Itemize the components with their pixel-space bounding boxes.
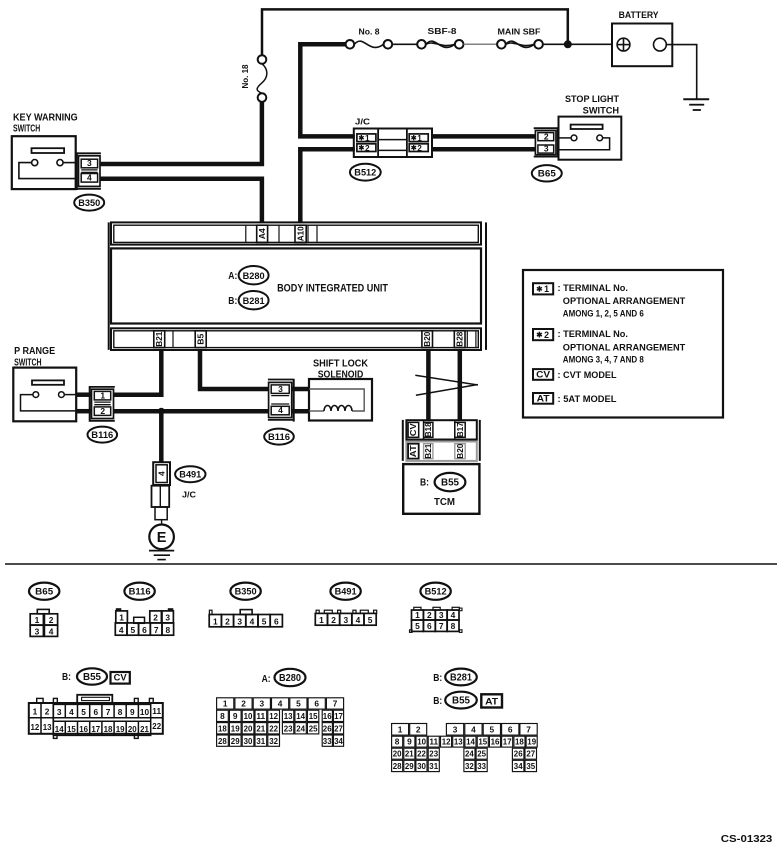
- svg-text:1: 1: [417, 133, 422, 143]
- svg-text:30: 30: [244, 736, 253, 746]
- key warning switch connector pins 3,4: [76, 152, 78, 190]
- svg-text:5: 5: [296, 699, 301, 709]
- key warning switch body: [12, 136, 76, 189]
- svg-text:B18: B18: [423, 422, 433, 437]
- stop light switch connector B65 pins 2,3: [557, 127, 559, 157]
- svg-text:34: 34: [334, 736, 343, 746]
- svg-text:B20: B20: [422, 331, 432, 346]
- svg-text:14: 14: [55, 724, 64, 734]
- svg-text:2: 2: [100, 406, 105, 416]
- svg-text:5: 5: [262, 617, 267, 627]
- svg-text:13: 13: [284, 711, 293, 721]
- svg-text:21: 21: [140, 724, 149, 734]
- svg-text:B:: B:: [228, 296, 237, 307]
- svg-text:1: 1: [119, 613, 124, 623]
- svg-text:3: 3: [237, 617, 242, 627]
- svg-text:13: 13: [454, 737, 463, 747]
- svg-text:1: 1: [33, 707, 38, 717]
- BIU connector strip A (top): [111, 222, 481, 244]
- svg-text:32: 32: [465, 761, 474, 771]
- fuse No. 8: [346, 40, 355, 49]
- svg-text:21: 21: [256, 723, 265, 733]
- svg-text:B21: B21: [423, 443, 433, 458]
- svg-text:19: 19: [231, 723, 240, 733]
- connector label B65: [532, 165, 562, 181]
- svg-text:29: 29: [405, 761, 414, 771]
- svg-text:1: 1: [398, 725, 403, 735]
- svg-text:18: 18: [104, 724, 113, 734]
- svg-text:5: 5: [368, 615, 373, 625]
- svg-text:22: 22: [269, 723, 278, 733]
- connector label B491: [175, 466, 205, 482]
- svg-text:4: 4: [278, 699, 283, 709]
- connector label B116: [88, 427, 118, 443]
- svg-text:30: 30: [417, 761, 426, 771]
- svg-text:BATTERY: BATTERY: [619, 10, 659, 20]
- svg-text:1: 1: [544, 284, 549, 294]
- svg-text:4: 4: [278, 405, 283, 415]
- svg-text:2: 2: [49, 615, 54, 625]
- svg-text:4: 4: [69, 707, 74, 717]
- svg-text:MAIN SBF: MAIN SBF: [498, 27, 541, 37]
- svg-text:A10: A10: [295, 226, 305, 241]
- crossing annotation (option crossover): [415, 375, 478, 385]
- svg-text:10: 10: [244, 711, 253, 721]
- P range switch body: [13, 368, 76, 422]
- svg-text:2: 2: [427, 610, 432, 620]
- wire: key warning pin 4 to BIU A4: [100, 179, 262, 223]
- body integrated unit side brackets: [108, 222, 110, 350]
- svg-text:12: 12: [442, 737, 451, 747]
- svg-text:18: 18: [515, 737, 524, 747]
- svg-text:CV: CV: [536, 370, 551, 380]
- svg-text:1: 1: [365, 133, 370, 143]
- svg-text:B17: B17: [455, 422, 465, 437]
- svg-text:B28: B28: [454, 331, 464, 346]
- svg-text:2: 2: [365, 143, 370, 153]
- wire: J/C *1 to stop light switch pin 2: [432, 134, 535, 139]
- legend symbol AT: [533, 393, 553, 404]
- svg-text:16: 16: [323, 711, 332, 721]
- svg-text:4: 4: [451, 610, 456, 620]
- svg-text:25: 25: [309, 723, 318, 733]
- svg-text:9: 9: [407, 737, 412, 747]
- section connector label B491: [330, 583, 360, 600]
- TCM connector CV row: [406, 420, 476, 439]
- svg-text:6: 6: [508, 725, 513, 735]
- svg-text:B281: B281: [243, 296, 265, 306]
- connector B491 pin view: [316, 610, 319, 613]
- svg-text:7: 7: [154, 625, 159, 635]
- svg-text:16: 16: [491, 737, 500, 747]
- svg-text:7: 7: [439, 621, 444, 631]
- svg-text:AMONG 1, 2, 5 AND 6: AMONG 1, 2, 5 AND 6: [563, 308, 644, 318]
- svg-text:B:: B:: [62, 672, 71, 683]
- svg-text:20: 20: [128, 724, 137, 734]
- svg-text:6: 6: [93, 707, 98, 717]
- wire: thick from fuse No.8 to J/C *1 via corner: [300, 44, 355, 136]
- svg-text:9: 9: [233, 711, 238, 721]
- svg-text:10: 10: [140, 707, 150, 717]
- svg-text:9: 9: [130, 707, 135, 717]
- svg-text:B491: B491: [179, 470, 201, 480]
- svg-text:4: 4: [250, 617, 255, 627]
- svg-text:SWITCH: SWITCH: [13, 124, 40, 135]
- svg-text:4: 4: [49, 626, 54, 636]
- svg-text:20: 20: [393, 749, 402, 759]
- svg-text:1: 1: [213, 617, 218, 627]
- svg-text:J/C: J/C: [355, 116, 371, 126]
- svg-text:19: 19: [116, 724, 125, 734]
- BIU ref A: B280: [239, 266, 269, 284]
- wire: SBF-8 to MAIN SBF (gray): [464, 43, 498, 45]
- svg-text:1: 1: [319, 615, 324, 625]
- svg-text:3: 3: [35, 626, 40, 636]
- wire: MAIN SBF to battery: [543, 43, 612, 45]
- connector B491 pin 4: [153, 462, 170, 485]
- svg-text:16: 16: [79, 724, 88, 734]
- connector B512 pin view: [414, 607, 421, 610]
- svg-text:A4: A4: [257, 228, 267, 239]
- svg-text:10: 10: [417, 737, 426, 747]
- svg-text:B512: B512: [425, 587, 447, 598]
- svg-text:23: 23: [284, 723, 293, 733]
- BIU pin B28: [454, 331, 465, 348]
- fuse No. 18: [258, 55, 267, 64]
- svg-text:24: 24: [296, 723, 305, 733]
- connector B281/B55 pin view: [392, 724, 409, 736]
- connector label B512: [350, 164, 381, 181]
- BIU pin B5: [195, 331, 206, 348]
- svg-text:B350: B350: [78, 198, 100, 208]
- svg-text:No. 8: No. 8: [359, 27, 380, 37]
- section connector label B116: [124, 583, 154, 600]
- svg-text:B350: B350: [235, 587, 257, 598]
- wire stubs: P range switch to connector: [76, 392, 92, 397]
- svg-text:6: 6: [427, 621, 432, 631]
- svg-text:B:: B:: [433, 673, 442, 684]
- shift lock connector B116 pins 3,4: [293, 379, 295, 422]
- J/C left pin *2: [357, 144, 376, 152]
- svg-text:B65: B65: [538, 169, 556, 179]
- svg-text:: TERMINAL No.: : TERMINAL No.: [558, 283, 629, 293]
- svg-text:A:: A:: [228, 271, 237, 282]
- connector B350 pin view: [209, 610, 212, 614]
- wire: P range pin 2 to shift lock solenoid pin 4: [114, 409, 269, 414]
- solenoid coil: [324, 406, 352, 412]
- svg-text:8: 8: [118, 707, 123, 717]
- J/C left pin *1: [357, 134, 376, 142]
- legend symbol *2: [533, 329, 553, 340]
- svg-text:15: 15: [67, 724, 76, 734]
- J/C right pin *2: [409, 144, 428, 152]
- connector B55 (CV) pin view: [77, 695, 112, 703]
- J/C block below B491: [152, 486, 170, 507]
- svg-text:B281: B281: [450, 673, 473, 684]
- svg-text:2: 2: [241, 699, 246, 709]
- svg-text:15: 15: [309, 711, 318, 721]
- battery + terminal: [617, 38, 630, 51]
- svg-text:24: 24: [465, 749, 474, 759]
- ground node E: [149, 525, 174, 550]
- svg-text:CS-01323: CS-01323: [721, 834, 773, 845]
- svg-text:7: 7: [333, 699, 338, 709]
- svg-text:8: 8: [165, 625, 170, 635]
- wire: gap pin4 to solenoid box: [292, 409, 309, 414]
- svg-text:25: 25: [477, 749, 486, 759]
- svg-text:B116: B116: [91, 430, 113, 440]
- svg-text:5: 5: [489, 725, 494, 735]
- svg-text:32: 32: [269, 736, 278, 746]
- wire: fuse No.8 to SBF-8: [392, 43, 417, 45]
- svg-text:B512: B512: [354, 168, 376, 178]
- svg-text:12: 12: [269, 711, 278, 721]
- svg-text:8: 8: [395, 737, 400, 747]
- svg-text:17: 17: [91, 724, 100, 734]
- svg-text:28: 28: [218, 736, 227, 746]
- svg-text:: CVT MODEL: : CVT MODEL: [558, 370, 617, 380]
- svg-text:3: 3: [278, 384, 283, 394]
- svg-text:5: 5: [415, 621, 420, 631]
- J/C right pin *1: [409, 134, 428, 142]
- svg-text:12: 12: [31, 722, 40, 732]
- svg-text:18: 18: [218, 723, 227, 733]
- svg-text:CV: CV: [114, 673, 128, 683]
- section connector label B512: [420, 583, 450, 600]
- wire: J/C *2 to stop light switch pin 3: [432, 147, 535, 152]
- fuse SBF-8: [417, 40, 426, 49]
- svg-text:11: 11: [429, 737, 438, 747]
- svg-text:27: 27: [526, 749, 535, 759]
- svg-text:B116: B116: [268, 432, 290, 442]
- svg-text:3: 3: [259, 699, 264, 709]
- svg-text:5: 5: [130, 625, 135, 635]
- svg-text:8: 8: [451, 621, 456, 631]
- svg-text:29: 29: [231, 736, 240, 746]
- svg-text:17: 17: [503, 737, 512, 747]
- BIU main box: [111, 248, 481, 323]
- battery: [612, 24, 672, 67]
- node: junction dot at MAIN SBF output: [564, 40, 572, 48]
- svg-text:28: 28: [393, 761, 402, 771]
- wire: gap pin3 to solenoid box: [292, 387, 309, 392]
- svg-text:6: 6: [314, 699, 319, 709]
- svg-text:3: 3: [439, 610, 444, 620]
- wire: BIU B28 down to TCM B17: [458, 350, 463, 420]
- svg-text:1: 1: [100, 390, 105, 400]
- BIU connector strip B (bottom): [111, 328, 481, 350]
- svg-text:BODY INTEGRATED UNIT: BODY INTEGRATED UNIT: [277, 283, 388, 295]
- svg-text:B:: B:: [433, 696, 442, 707]
- svg-text:3: 3: [87, 158, 92, 168]
- section connector label B65: [29, 583, 59, 600]
- svg-text:1: 1: [415, 610, 420, 620]
- ground terminal block: [155, 507, 167, 520]
- svg-text:KEY WARNING: KEY WARNING: [13, 112, 78, 123]
- svg-text:13: 13: [43, 722, 52, 732]
- section connector label B350: [230, 583, 260, 600]
- BIU pin A4: [257, 225, 268, 242]
- svg-text:: TERMINAL No.: : TERMINAL No.: [558, 329, 629, 339]
- svg-text:4: 4: [156, 471, 166, 476]
- svg-text:CV: CV: [408, 423, 418, 436]
- svg-text:31: 31: [429, 761, 438, 771]
- svg-text:7: 7: [106, 707, 111, 717]
- svg-text:A:: A:: [262, 674, 271, 685]
- connector label B350: [74, 195, 104, 211]
- svg-text:B5: B5: [196, 333, 206, 344]
- svg-text:8: 8: [220, 711, 225, 721]
- svg-text:B280: B280: [279, 673, 301, 684]
- svg-text:STOP LIGHT: STOP LIGHT: [565, 94, 619, 104]
- ground (battery): [683, 98, 709, 100]
- svg-text:2: 2: [417, 143, 422, 153]
- svg-text:26: 26: [514, 749, 523, 759]
- battery - terminal: [654, 38, 667, 51]
- svg-text:7: 7: [526, 725, 531, 735]
- BIU pin B21: [154, 331, 165, 348]
- svg-text:2: 2: [45, 707, 50, 717]
- svg-text:B55: B55: [83, 672, 102, 683]
- svg-text:15: 15: [478, 737, 487, 747]
- svg-text:14: 14: [466, 737, 475, 747]
- svg-text:SBF-8: SBF-8: [428, 26, 457, 36]
- svg-text:TCM: TCM: [434, 497, 455, 508]
- svg-text:1: 1: [35, 615, 40, 625]
- svg-text:22: 22: [417, 749, 426, 759]
- BIU pin B20: [422, 331, 433, 348]
- svg-text:33: 33: [323, 736, 332, 746]
- svg-text:2: 2: [544, 131, 549, 141]
- stop light switch body: [559, 117, 622, 160]
- svg-text:35: 35: [526, 761, 535, 771]
- svg-text:OPTIONAL ARRANGEMENT: OPTIONAL ARRANGEMENT: [563, 342, 686, 352]
- wire: BIU B21 down to P range pin 1: [114, 350, 162, 395]
- svg-text:19: 19: [527, 737, 536, 747]
- P range connector B116 pins 1,2: [89, 386, 91, 422]
- svg-text:B21: B21: [154, 331, 164, 346]
- svg-text:3: 3: [453, 725, 458, 735]
- svg-text:4: 4: [356, 615, 361, 625]
- svg-text:B65: B65: [35, 587, 54, 598]
- wire: J/C *2 down to BIU A10: [300, 149, 355, 223]
- TCM connector AT row: [406, 442, 476, 461]
- svg-text:P RANGE: P RANGE: [14, 346, 55, 357]
- svg-text:B116: B116: [129, 587, 151, 598]
- svg-text:AT: AT: [408, 444, 418, 457]
- svg-text:: 5AT MODEL: : 5AT MODEL: [558, 394, 617, 404]
- svg-text:22: 22: [152, 721, 161, 731]
- shift lock solenoid body: [309, 379, 372, 421]
- svg-text:17: 17: [334, 711, 343, 721]
- wire: battery feed bypass (top bent wire): [262, 9, 568, 55]
- svg-text:SHIFT LOCK: SHIFT LOCK: [313, 358, 368, 369]
- svg-text:20: 20: [244, 723, 253, 733]
- svg-text:5: 5: [81, 707, 86, 717]
- svg-text:No. 18: No. 18: [240, 64, 250, 88]
- svg-text:21: 21: [405, 749, 414, 759]
- svg-text:2: 2: [225, 617, 230, 627]
- wire: BIU B5 down to shift lock solenoid pin 3: [200, 350, 268, 389]
- svg-text:27: 27: [334, 723, 343, 733]
- svg-text:2: 2: [544, 330, 549, 340]
- node: junction to B491 ground branch: [158, 408, 165, 415]
- wire: junction down to B491: [159, 411, 164, 462]
- fuse MAIN SBF: [497, 40, 506, 49]
- svg-text:6: 6: [274, 617, 279, 627]
- BIU ref B: B281: [239, 291, 269, 309]
- svg-text:2: 2: [331, 615, 336, 625]
- svg-text:B20: B20: [455, 443, 465, 458]
- TCM ref B: B55: [435, 473, 466, 491]
- TCM connector brackets: [402, 420, 404, 461]
- svg-text:33: 33: [477, 761, 486, 771]
- svg-text:11: 11: [256, 711, 265, 721]
- connector label B116 (solenoid): [264, 429, 294, 445]
- svg-text:34: 34: [514, 761, 523, 771]
- svg-text:26: 26: [323, 723, 332, 733]
- svg-text:3: 3: [165, 613, 170, 623]
- svg-text:3: 3: [544, 144, 549, 154]
- svg-text:OPTIONAL ARRANGEMENT: OPTIONAL ARRANGEMENT: [563, 296, 686, 306]
- legend symbol CV: [533, 369, 553, 380]
- svg-text:SWITCH: SWITCH: [583, 105, 619, 115]
- legend symbol *1: [533, 283, 553, 294]
- svg-text:B280: B280: [243, 271, 265, 281]
- svg-text:31: 31: [256, 736, 265, 746]
- svg-text:11: 11: [152, 706, 161, 716]
- svg-text:3: 3: [343, 615, 348, 625]
- svg-text:3: 3: [57, 707, 62, 717]
- svg-text:14: 14: [296, 711, 305, 721]
- svg-text:B:: B:: [420, 477, 429, 488]
- wire: key warning pin 3 up to fuse No.18: [100, 102, 262, 164]
- separator line: [5, 563, 777, 565]
- svg-text:AT: AT: [537, 394, 550, 404]
- svg-text:2: 2: [416, 725, 421, 735]
- legend box: [523, 270, 723, 418]
- ground symbol (E): [149, 550, 174, 552]
- connector B280 pin view: [217, 698, 234, 709]
- svg-text:J/C: J/C: [182, 490, 197, 500]
- BIU pin A10: [295, 225, 306, 242]
- wire: BIU B20 down to TCM B18: [426, 350, 431, 420]
- wire: battery to ground: [666, 45, 696, 100]
- svg-text:1: 1: [223, 699, 228, 709]
- svg-text:4: 4: [471, 725, 476, 735]
- svg-text:B55: B55: [441, 478, 460, 489]
- svg-text:4: 4: [87, 172, 92, 182]
- svg-text:AMONG 3, 4, 7 AND 8: AMONG 3, 4, 7 AND 8: [563, 354, 644, 364]
- svg-text:AT: AT: [485, 696, 498, 707]
- connector B116 pin view: [116, 608, 122, 611]
- svg-text:E: E: [157, 530, 167, 546]
- svg-text:B491: B491: [335, 587, 358, 598]
- TCM box: [403, 464, 479, 514]
- connector B65 pin view: [37, 609, 49, 613]
- svg-text:B55: B55: [452, 696, 471, 707]
- svg-text:23: 23: [429, 749, 438, 759]
- svg-text:2: 2: [153, 613, 158, 623]
- svg-text:4: 4: [119, 625, 124, 635]
- svg-text:6: 6: [142, 625, 147, 635]
